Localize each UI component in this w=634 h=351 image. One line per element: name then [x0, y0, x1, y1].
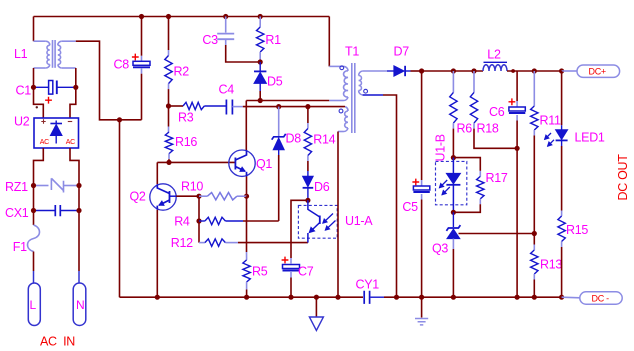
node R2 top [166, 14, 171, 19]
svg-text:CX1: CX1 [5, 206, 29, 220]
wire primary bottom bus [246, 100, 329, 102]
terminal N pin [78, 271, 80, 283]
wire opto anode to R17 [453, 158, 480, 177]
wire aux bottom to rail [337, 132, 339, 298]
label F1 [13, 240, 27, 254]
wire F1 to L terminal [33, 252, 35, 272]
wire L1 right down to C1 [75, 68, 77, 87]
resistor R2 [165, 17, 172, 107]
wire RZ1 to CX1 right [78, 186, 80, 211]
svg-text:D7: D7 [394, 44, 410, 58]
resistor R15 [558, 216, 565, 297]
node C1 left [31, 85, 36, 90]
node C5 bottom [419, 295, 424, 300]
svg-text:L2: L2 [487, 47, 501, 61]
resistor R16 [165, 106, 172, 162]
node D8 top [276, 104, 281, 109]
svg-text:U2: U2 [14, 114, 30, 128]
wire Q2 collector drop [156, 162, 158, 184]
wire U2 bottom-right jog to RZ1 [70, 148, 79, 186]
capacitor CX1 [34, 205, 80, 216]
node R1 top [258, 14, 263, 19]
svg-text:CY1: CY1 [356, 278, 380, 292]
svg-text:R3: R3 [178, 111, 194, 125]
node R5 bottom [244, 295, 249, 300]
node R15 bottom [559, 295, 564, 300]
port DC- [562, 292, 623, 304]
label R17 [486, 171, 508, 185]
transistor Q2 [150, 184, 176, 210]
wire Q2 collector / Q1 base [157, 161, 235, 163]
LED LED1 [545, 71, 568, 216]
label R13 [540, 258, 562, 272]
svg-text:U1-A: U1-A [345, 214, 373, 228]
svg-text:D8: D8 [286, 131, 302, 145]
label D8 [286, 131, 302, 145]
svg-text:C3: C3 [202, 33, 218, 47]
svg-text:R16: R16 [175, 135, 197, 149]
resistor R6 [450, 71, 457, 158]
label R2 [174, 64, 190, 78]
svg-text:DC+: DC+ [589, 67, 606, 77]
resistor R12 [199, 239, 308, 246]
node CX1 left [31, 208, 36, 213]
label C4 [219, 82, 235, 96]
transformer T1 [329, 63, 387, 133]
node Q2 emitter rail [155, 295, 160, 300]
svg-text:R13: R13 [540, 258, 562, 272]
svg-text:T1: T1 [345, 44, 359, 58]
ground earth secondary [415, 297, 428, 325]
label D7 [394, 44, 410, 58]
label R16 [175, 135, 197, 149]
wire L1 top-right to C8 bottom row [76, 41, 142, 120]
node C8 bottom / primary gnd tap [117, 117, 122, 122]
label R3 [178, 111, 194, 125]
svg-text:Q1: Q1 [256, 157, 272, 171]
svg-text:U1-B: U1-B [434, 134, 448, 161]
resistor R13 [531, 234, 538, 298]
node D5 anode [258, 98, 263, 103]
label U1-A [345, 214, 373, 228]
resistor R17 [453, 176, 484, 212]
label CX1 [5, 206, 29, 220]
capacitor C4 [226, 100, 242, 115]
label R14 [313, 132, 335, 146]
bridge rectifier U2 [34, 106, 79, 148]
wire DC+ bus [422, 70, 483, 72]
svg-text:R17: R17 [486, 171, 508, 185]
svg-text:N: N [76, 298, 84, 312]
label U2 [14, 114, 30, 128]
label Q3 [432, 242, 448, 256]
wire secondary bottom to rail [383, 95, 397, 297]
node R6 top [451, 68, 456, 73]
node R14 top [305, 104, 310, 109]
label C7 [298, 264, 314, 278]
label T1 [345, 44, 359, 58]
capacitor C7 [282, 257, 300, 298]
wire base divider column [198, 196, 200, 242]
node D6 anode / opto collector [305, 198, 310, 203]
node R1 bottom / C3 junction [258, 59, 263, 64]
capacitor C6 [509, 71, 526, 297]
node C6 rail [515, 295, 520, 300]
zener diode D8 [272, 107, 286, 221]
svg-text:R4: R4 [174, 215, 190, 229]
wire top bus down to primary [328, 17, 330, 67]
node RZ1 right [76, 183, 81, 188]
label LED1 [575, 131, 605, 145]
label C3 [202, 33, 218, 47]
label L1 [14, 47, 28, 61]
svg-text:C4: C4 [219, 82, 235, 96]
svg-text:C7: C7 [298, 264, 314, 278]
svg-text:D5: D5 [267, 74, 283, 88]
label D5 [267, 74, 283, 88]
node C7 bottom [288, 295, 293, 300]
label C1 [16, 84, 32, 98]
node CX1 right [76, 208, 81, 213]
capacitor C1 [34, 81, 76, 104]
node R10 left [196, 194, 201, 199]
node R6 bottom / opto anode [451, 155, 456, 160]
resistor R1 [257, 17, 264, 63]
node opto cathode / R17 bottom [451, 210, 456, 215]
diode D5 [254, 62, 266, 101]
node L2 output junction [511, 69, 515, 73]
svg-text:AC IN: AC IN [40, 335, 75, 349]
svg-text:C8: C8 [114, 57, 130, 71]
resistor R3 [169, 102, 227, 109]
resistor R5 [243, 196, 250, 297]
wire Q2 base [176, 195, 199, 197]
diode D6 [303, 176, 314, 200]
svg-text:C5: C5 [402, 200, 418, 214]
svg-text:R1: R1 [265, 33, 281, 47]
inductor L1 [34, 40, 76, 68]
label R4 [174, 215, 190, 229]
optocoupler U1-A phototransistor [298, 200, 337, 242]
svg-text:R11: R11 [540, 114, 561, 128]
resistor R10 [199, 193, 247, 200]
inductor L2 [483, 62, 507, 71]
port DC+ [562, 65, 620, 77]
varistor RZ1 [34, 178, 80, 192]
svg-text:F1: F1 [13, 240, 27, 254]
label L2 [487, 47, 501, 61]
svg-text:Q2: Q2 [130, 189, 146, 203]
label R18 [477, 121, 499, 135]
capacitor C8 [132, 17, 150, 120]
label U1-B [434, 134, 448, 161]
svg-text:L1: L1 [14, 47, 28, 61]
svg-text:C1: C1 [16, 84, 32, 98]
capacitor CY1 [364, 291, 369, 304]
label C6 [489, 105, 505, 119]
wire U2 bottom-left jog to RZ1 [34, 148, 44, 186]
node R13 top / Q3 ref [532, 231, 537, 236]
fuse F1 [28, 225, 40, 252]
wire C1 right to U2 pin jog [70, 87, 76, 118]
wire Q1 emitter [246, 176, 248, 196]
svg-text:L: L [30, 298, 37, 312]
wire Q1 collector drop [245, 101, 247, 151]
label R15 [566, 223, 588, 237]
optocoupler U1-B LED [436, 158, 467, 213]
wire CX1 right to N terminal [78, 211, 80, 272]
node R11 top [532, 68, 537, 73]
label CY1 [356, 278, 380, 292]
svg-text:D6: D6 [314, 180, 330, 194]
diode D7 [387, 66, 422, 76]
capacitor C3 [217, 17, 260, 63]
label DC OUT [616, 154, 630, 201]
svg-text:R10: R10 [181, 179, 203, 193]
node R13 bottom [532, 295, 537, 300]
terminal N [73, 283, 86, 326]
label RZ1 [5, 180, 28, 194]
label D6 [314, 180, 330, 194]
transistor Q1 [229, 150, 255, 176]
resistor R11 [531, 71, 538, 234]
terminal L pin [33, 271, 35, 283]
capacitor C5 [412, 71, 429, 297]
label R10 [181, 179, 203, 193]
node C6 bottom junction [515, 146, 520, 151]
svg-text:DC OUT: DC OUT [616, 154, 630, 201]
label Q2 [130, 189, 146, 203]
node C1 right [73, 85, 78, 90]
resistor R4 [199, 217, 279, 224]
label C8 [114, 57, 130, 71]
label R1 [265, 33, 281, 47]
label C5 [402, 200, 418, 214]
label R11 [540, 114, 561, 128]
node C8 top [139, 14, 144, 19]
node C3 top [223, 14, 228, 19]
wire primary ground rail [120, 296, 364, 298]
wire secondary ground rail [371, 296, 562, 298]
node R2 bottom [166, 103, 171, 108]
node Q1 emitter / R10 right [244, 194, 249, 199]
terminal L [28, 283, 40, 326]
label Q1 [256, 157, 272, 171]
node LED1 top [559, 68, 564, 73]
svg-text:R14: R14 [313, 132, 335, 146]
svg-text:R6: R6 [457, 121, 473, 135]
svg-text:Q3: Q3 [432, 242, 448, 256]
label AC IN [40, 335, 75, 349]
wire top DC bus [34, 16, 330, 18]
wire C1 left to U2 pin jog [34, 87, 44, 118]
svg-text:AC: AC [40, 139, 49, 146]
wire aux winding bus [243, 106, 345, 108]
wire left column to L1 [33, 17, 35, 42]
svg-text:AC: AC [66, 139, 75, 146]
label R6 [457, 121, 473, 135]
svg-text:R5: R5 [252, 265, 268, 279]
wire primary gnd drop [119, 120, 121, 297]
node R18 top [471, 68, 476, 73]
wire DC+ bus after L2 [507, 70, 562, 72]
node C5 top [419, 68, 424, 73]
svg-text:R12: R12 [171, 236, 193, 250]
wire Q2 emitter to ground rail [156, 210, 158, 297]
resistor R18 [470, 71, 517, 148]
svg-text:LED1: LED1 [575, 131, 605, 145]
svg-text:R15: R15 [566, 223, 588, 237]
svg-text:DC -: DC - [592, 294, 610, 304]
node Q3 anode rail [451, 295, 456, 300]
node secondary bottom rail [394, 295, 399, 300]
svg-text:R18: R18 [477, 121, 499, 135]
wire L1 left down to C1 [33, 68, 35, 87]
svg-text:C6: C6 [489, 105, 505, 119]
wire opto collector to C7 [291, 200, 308, 263]
label R12 [171, 236, 193, 250]
node aux bottom rail [335, 295, 340, 300]
node triangle ground rail [314, 295, 319, 300]
wire CX1 to F1 [33, 211, 35, 226]
svg-text:RZ1: RZ1 [5, 180, 28, 194]
node R16 bottom [166, 160, 171, 165]
label R5 [252, 265, 268, 279]
resistor R14 [304, 107, 311, 177]
ground triangle primary [309, 297, 323, 330]
wire RZ1 to CX1 left [33, 186, 35, 211]
node RZ1 left [31, 183, 36, 188]
shunt regulator Q3 [446, 212, 534, 297]
svg-text:R2: R2 [174, 64, 190, 78]
node R4 left [196, 218, 201, 223]
